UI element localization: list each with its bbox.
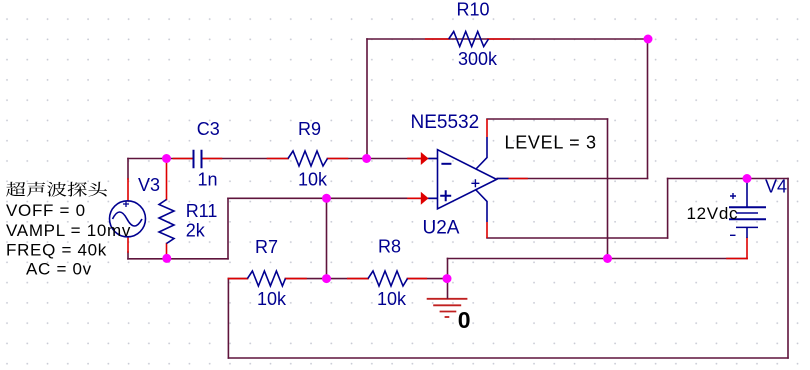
pin stub opamp noninverting	[408, 197, 421, 199]
pin stub R7 right	[285, 278, 306, 280]
svg-text:FREQ = 40k: FREQ = 40k	[6, 241, 107, 260]
pin stub V3 top	[127, 179, 129, 201]
wire bias riser	[326, 198, 328, 278]
op-amp power pin stubs	[486, 119, 488, 238]
svg-text:300k: 300k	[458, 49, 498, 69]
wire V3 left vertical	[127, 159, 129, 259]
svg-text:R7: R7	[255, 237, 278, 257]
wire vminus horizontal	[487, 237, 668, 239]
svg-text:10k: 10k	[257, 289, 287, 309]
pin stub R7 left	[228, 278, 247, 280]
junction noninverting bias	[322, 194, 331, 203]
pin stub R11 bottom	[166, 244, 168, 259]
svg-text:V3: V3	[138, 175, 160, 195]
junction V3 bottom	[162, 254, 171, 263]
junction V3 top	[162, 154, 171, 163]
wire ground riser	[447, 259, 449, 279]
svg-text:NE5532: NE5532	[411, 112, 480, 133]
wire vminus bend vertical	[667, 179, 669, 239]
op-amp noninverting input arrow	[421, 192, 429, 205]
wire feedback top horizontal	[367, 38, 648, 40]
svg-text:12Vdc: 12Vdc	[687, 204, 739, 223]
pin stub R8 right	[408, 278, 427, 280]
resistor R8	[368, 271, 408, 286]
svg-text:0: 0	[458, 307, 471, 333]
pin stub R10 left	[426, 38, 449, 40]
op-amp U2A	[429, 137, 509, 222]
wire vplus horizontal	[487, 118, 608, 120]
wire R7 left drop	[227, 279, 229, 358]
svg-text:10k: 10k	[298, 170, 328, 190]
svg-text:U2A: U2A	[423, 218, 460, 239]
pin stub C3 right	[202, 158, 222, 160]
wire opamp output	[497, 178, 648, 180]
ground stem	[447, 279, 449, 299]
junction R7 R8	[322, 274, 331, 283]
wire noninverting horizontal	[228, 197, 437, 199]
junction R8 ground	[443, 274, 452, 283]
junction R9 R10 inverting	[362, 154, 371, 163]
wire bottom rail	[228, 357, 788, 359]
svg-text:R8: R8	[378, 237, 401, 257]
svg-text:VAMPL = 10mv: VAMPL = 10mv	[6, 221, 131, 240]
svg-text:C3: C3	[197, 119, 220, 139]
label chinese ultrasonic probe	[6, 182, 107, 197]
pin stub ground row near battery	[727, 258, 747, 260]
pin stub R10 right	[488, 38, 510, 40]
op-amp inverting input arrow	[421, 152, 429, 165]
pin stub C3 left	[174, 158, 194, 160]
wire right rail	[787, 179, 789, 359]
pin stub opamp output	[509, 178, 528, 180]
svg-text:1n: 1n	[198, 170, 218, 190]
pin stub R9 left	[268, 158, 289, 160]
svg-text:LEVEL = 3: LEVEL = 3	[505, 133, 597, 153]
pin stub V3 bottom	[127, 237, 129, 252]
pin stub battery minus	[746, 238, 748, 259]
svg-text:R10: R10	[457, 0, 490, 19]
svg-text:10k: 10k	[377, 289, 407, 309]
ground 0	[427, 299, 468, 317]
wire R7 R8 row	[228, 278, 447, 280]
svg-text:R11: R11	[186, 201, 218, 221]
capacitor C3	[194, 150, 202, 169]
pin stub opamp inverting	[408, 158, 421, 160]
svg-text:VOFF = 0: VOFF = 0	[6, 201, 86, 220]
junction battery plus	[743, 174, 752, 183]
svg-text:R9: R9	[298, 119, 321, 139]
source V3	[110, 201, 146, 237]
pin stub R11 top	[166, 159, 168, 200]
svg-text:V4: V4	[765, 177, 787, 197]
junction feedback corner	[644, 35, 653, 44]
wire feedback left vertical	[366, 39, 368, 159]
wire battery top horizontal	[668, 178, 788, 180]
resistor R9	[288, 151, 328, 166]
battery V4	[729, 179, 766, 239]
wire signal input horizontal	[128, 158, 437, 160]
wire vplus drop vertical	[607, 119, 609, 259]
wire noninverting riser	[227, 198, 229, 258]
svg-text:2k: 2k	[186, 221, 206, 241]
wire V3 bottom horizontal	[128, 258, 228, 260]
pin stub R9 right	[328, 158, 348, 160]
svg-text:AC = 0v: AC = 0v	[26, 260, 92, 279]
resistor R7	[247, 271, 285, 286]
wire feedback right vertical	[647, 39, 649, 179]
wire ground row	[448, 258, 748, 260]
pin stub R8 left	[348, 278, 368, 280]
resistor R10	[449, 32, 489, 47]
resistor R11	[159, 200, 174, 244]
junction vplus ground row	[603, 254, 612, 263]
